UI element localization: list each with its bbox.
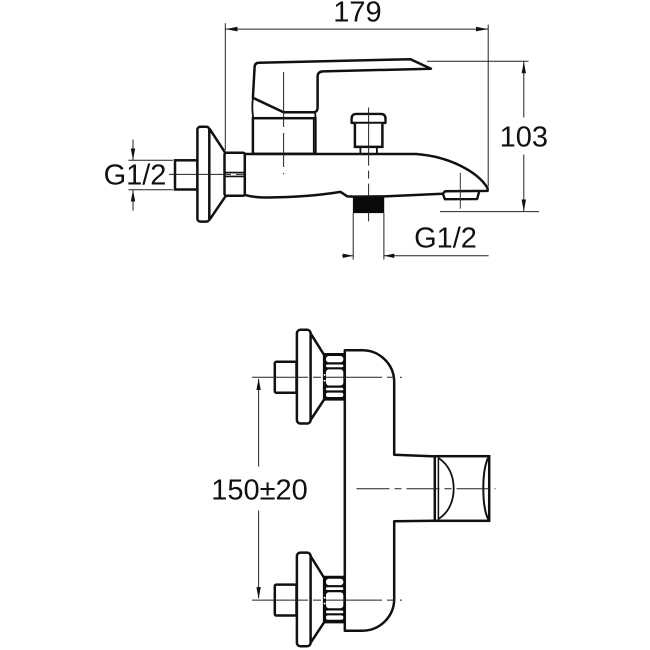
outlet socket body bbox=[435, 456, 489, 521]
shower hose outlet (black) bbox=[353, 197, 384, 213]
left connector horizontal centerline bbox=[169, 173, 256, 175]
diverter knob body bbox=[355, 124, 383, 147]
dimension 179 arrowhead right bbox=[476, 27, 488, 32]
top wall connector bbox=[275, 330, 346, 424]
dimension 179 extension line left bbox=[224, 23, 226, 150]
bottom G1/2 extension line left bbox=[352, 213, 354, 260]
outlet socket front rim arc bbox=[439, 458, 454, 519]
faucet body with spout (top view) bbox=[245, 154, 488, 198]
svg-text:103: 103 bbox=[500, 122, 548, 154]
wall pipe nipple (left, top view) bbox=[175, 160, 198, 189]
outlet socket collar line bbox=[437, 457, 439, 520]
dimension 103 line lower segment bbox=[523, 155, 525, 212]
dimension 179 arrowhead left bbox=[226, 27, 238, 32]
spout aerator box bbox=[443, 191, 479, 199]
dimension 103 top extension line bbox=[427, 60, 529, 62]
cartridge housing inner edge line bbox=[313, 119, 315, 153]
svg-text:G1/2: G1/2 bbox=[104, 160, 167, 192]
left G1/2 arrow lower bbox=[132, 190, 134, 211]
hex nut middle lines bbox=[225, 172, 244, 174]
handle cap ring bbox=[252, 98, 315, 118]
dimension 150±20 arrowhead up bbox=[256, 378, 260, 390]
top connector centerline bbox=[252, 376, 402, 378]
svg-text:G1/2: G1/2 bbox=[414, 223, 477, 255]
dimension 103 bottom extension line bbox=[440, 211, 539, 213]
bottom G1/2 extension line right bbox=[383, 213, 385, 260]
connection hex nut (top view) bbox=[225, 153, 246, 196]
left G1/2 arrow upper bbox=[132, 140, 134, 161]
bottom connector centerline bbox=[252, 599, 402, 601]
dimension 179 extension line right bbox=[487, 25, 489, 187]
left G1/2 text background bbox=[103, 162, 167, 188]
bottom wall connector bbox=[275, 553, 346, 647]
bottom G1/2 dimension line left tail bbox=[342, 255, 353, 257]
dimension 150±20 arrowhead down bbox=[256, 587, 260, 599]
dimension 150±20 line upper segment bbox=[258, 379, 260, 467]
spout aerator centerline bbox=[459, 173, 461, 209]
svg-text:150±20: 150±20 bbox=[211, 475, 308, 507]
left G1/2 thread extension line bottom bbox=[129, 189, 174, 191]
mixer body (front view) bbox=[345, 350, 435, 630]
handle centerline bbox=[283, 72, 285, 174]
flange cone upper line bbox=[210, 129, 226, 154]
dimension 103 line upper segment bbox=[523, 62, 525, 118]
outlet socket centerline bbox=[357, 488, 496, 490]
lever handle (top view) bbox=[253, 59, 431, 112]
dimension 103 arrowhead up bbox=[522, 62, 526, 74]
wall flange disc (top view) bbox=[197, 127, 209, 222]
left G1/2 thread extension line top bbox=[129, 159, 174, 161]
dimension 103 arrowhead down bbox=[522, 200, 526, 212]
diverter / shower outlet centerline bbox=[368, 108, 370, 222]
bottom G1/2 dimension line right tail bbox=[384, 255, 489, 257]
diverter knob cap bbox=[352, 114, 386, 123]
dimension 150±20 line lower segment bbox=[258, 511, 260, 599]
dimension 179 line bbox=[225, 28, 488, 30]
cartridge housing (top view) bbox=[253, 118, 316, 154]
diverter knob feet bbox=[359, 148, 361, 154]
svg-text:179: 179 bbox=[333, 0, 381, 28]
flange cone lower line bbox=[210, 196, 226, 220]
outlet socket far rim arc bbox=[483, 457, 488, 519]
